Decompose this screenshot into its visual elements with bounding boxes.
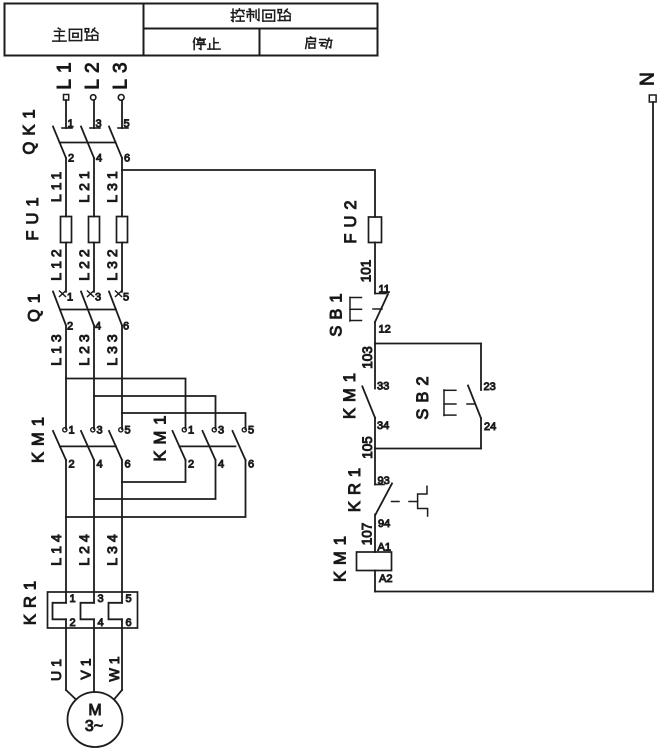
svg-text:L24: L24 (76, 530, 92, 565)
svg-text:FU2: FU2 (342, 194, 360, 243)
svg-text:33: 33 (377, 381, 389, 393)
svg-text:QK1: QK1 (21, 103, 39, 154)
svg-text:107: 107 (360, 523, 375, 546)
svg-text:A1: A1 (378, 542, 391, 554)
svg-text:3~: 3~ (85, 718, 103, 735)
svg-text:103: 103 (360, 346, 375, 369)
svg-text:3: 3 (96, 118, 102, 130)
svg-text:4: 4 (97, 459, 103, 471)
svg-text:FU1: FU1 (24, 191, 42, 240)
svg-text:34: 34 (377, 420, 389, 432)
svg-text:1: 1 (70, 593, 76, 605)
svg-text:3: 3 (95, 292, 101, 304)
svg-text:4: 4 (96, 153, 102, 165)
svg-text:105: 105 (360, 436, 375, 459)
svg-text:2: 2 (70, 617, 76, 629)
svg-text:23: 23 (484, 381, 496, 393)
svg-text:93: 93 (378, 475, 390, 487)
svg-text:5: 5 (124, 118, 130, 130)
svg-text:L1: L1 (55, 56, 76, 89)
svg-text:6: 6 (126, 617, 132, 629)
svg-text:4: 4 (218, 459, 224, 471)
svg-text:2: 2 (67, 321, 73, 333)
svg-text:L2: L2 (83, 56, 104, 89)
svg-text:101: 101 (359, 260, 374, 283)
svg-text:L23: L23 (76, 330, 92, 365)
svg-text:V1: V1 (78, 654, 94, 679)
svg-text:1: 1 (68, 118, 74, 130)
svg-text:1: 1 (69, 425, 75, 437)
svg-text:U1: U1 (48, 655, 64, 681)
svg-text:L32: L32 (104, 245, 120, 280)
svg-text:4: 4 (95, 321, 101, 333)
svg-text:5: 5 (125, 425, 131, 437)
svg-text:L22: L22 (76, 245, 92, 280)
svg-text:2: 2 (69, 459, 75, 471)
svg-text:KR1: KR1 (22, 575, 40, 625)
svg-text:L12: L12 (48, 245, 64, 280)
svg-text:3: 3 (218, 425, 224, 437)
svg-text:24: 24 (484, 421, 496, 433)
svg-text:1: 1 (188, 425, 194, 437)
svg-text:L3: L3 (111, 56, 132, 89)
svg-text:11: 11 (379, 284, 390, 296)
svg-text:KR1: KR1 (346, 462, 364, 512)
svg-text:5: 5 (248, 425, 254, 437)
svg-text:A2: A2 (379, 573, 392, 585)
svg-text:6: 6 (124, 153, 130, 165)
svg-text:6: 6 (125, 459, 131, 471)
svg-text:SB2: SB2 (414, 370, 432, 419)
svg-text:Q1: Q1 (26, 288, 44, 322)
svg-text:3: 3 (98, 593, 104, 605)
svg-text:6: 6 (123, 321, 129, 333)
svg-text:5: 5 (126, 593, 132, 605)
svg-text:12: 12 (379, 324, 391, 336)
svg-text:W1: W1 (106, 653, 122, 682)
svg-text:L13: L13 (48, 330, 64, 365)
svg-text:N: N (638, 66, 659, 86)
svg-text:KM1: KM1 (30, 411, 48, 463)
svg-text:1: 1 (67, 292, 73, 304)
svg-text:L11: L11 (48, 168, 64, 202)
svg-text:3: 3 (97, 425, 103, 437)
svg-text:L31: L31 (104, 167, 120, 202)
svg-text:94: 94 (378, 518, 390, 530)
svg-text:L34: L34 (104, 530, 120, 565)
svg-text:5: 5 (123, 292, 129, 304)
svg-text:M: M (88, 702, 101, 719)
svg-text:2: 2 (68, 153, 74, 165)
svg-text:2: 2 (188, 459, 194, 471)
svg-text:L14: L14 (48, 530, 64, 565)
svg-text:KM1: KM1 (341, 367, 359, 419)
svg-text:KM1: KM1 (152, 410, 170, 462)
svg-text:SB1: SB1 (328, 287, 346, 336)
svg-text:4: 4 (98, 617, 104, 629)
svg-text:L33: L33 (104, 330, 120, 365)
svg-text:KM1: KM1 (332, 530, 350, 582)
svg-text:L21: L21 (76, 167, 92, 202)
svg-text:6: 6 (248, 459, 254, 471)
